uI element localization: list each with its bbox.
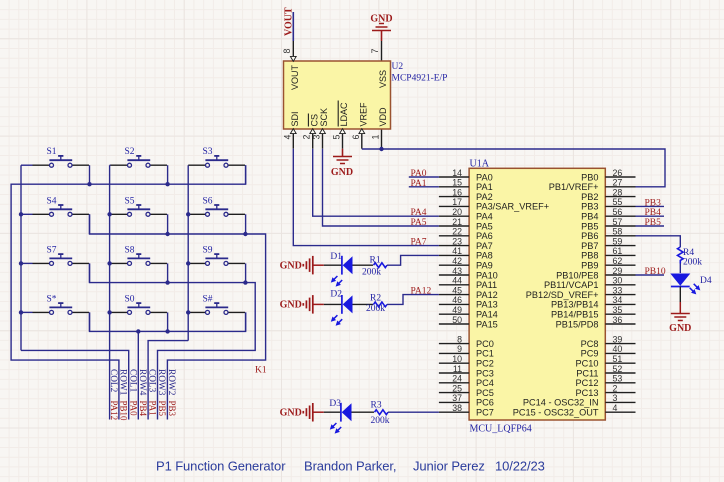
svg-text:8: 8	[457, 334, 462, 344]
svg-text:ROW1: ROW1	[118, 369, 128, 396]
svg-text:SCK: SCK	[319, 108, 329, 127]
svg-text:200k: 200k	[362, 268, 381, 278]
svg-text:52: 52	[613, 364, 623, 374]
svg-text:R4: R4	[683, 248, 694, 258]
svg-text:ROW4: ROW4	[137, 369, 147, 396]
svg-text:PA0: PA0	[476, 172, 493, 182]
svg-text:40: 40	[613, 344, 623, 354]
svg-text:15: 15	[452, 178, 462, 188]
svg-text:14: 14	[452, 168, 462, 178]
svg-text:PB15/PD8: PB15/PD8	[556, 319, 599, 329]
svg-text:61: 61	[613, 246, 623, 256]
svg-text:PB0: PB0	[581, 172, 598, 182]
svg-text:PA11: PA11	[476, 280, 497, 290]
svg-text:GND: GND	[331, 167, 353, 178]
svg-text:S5: S5	[125, 196, 135, 206]
svg-text:53: 53	[613, 374, 623, 384]
svg-text:VREF: VREF	[359, 102, 369, 127]
svg-text:38: 38	[452, 403, 462, 413]
svg-text:43: 43	[452, 266, 462, 276]
svg-text:4: 4	[282, 134, 292, 139]
svg-text:PB5: PB5	[645, 218, 662, 228]
svg-text:PC7: PC7	[476, 408, 494, 418]
svg-text:PC11: PC11	[576, 368, 598, 378]
svg-text:9: 9	[457, 344, 462, 354]
svg-text:PC12: PC12	[576, 378, 599, 388]
svg-text:PB2: PB2	[581, 192, 598, 202]
svg-text:21: 21	[452, 217, 462, 227]
svg-text:PB4: PB4	[581, 212, 598, 222]
svg-text:S6: S6	[203, 196, 213, 206]
svg-text:62: 62	[613, 256, 623, 266]
svg-text:VDD: VDD	[378, 107, 388, 127]
svg-text:R2: R2	[370, 293, 381, 303]
svg-text:Brandon Parker,: Brandon Parker,	[304, 458, 396, 473]
svg-text:PB8: PB8	[581, 251, 598, 261]
svg-text:PA3/SAR_VREF+: PA3/SAR_VREF+	[476, 202, 549, 212]
svg-text:S2: S2	[125, 147, 135, 157]
svg-text:S9: S9	[203, 245, 213, 255]
svg-text:3: 3	[312, 134, 322, 139]
svg-text:PA5: PA5	[411, 218, 427, 228]
svg-text:39: 39	[613, 334, 623, 344]
svg-text:D1: D1	[330, 252, 342, 262]
svg-text:COL3: COL3	[147, 369, 157, 393]
svg-text:PB4: PB4	[138, 401, 148, 417]
svg-text:PC10: PC10	[576, 359, 599, 369]
svg-text:PA2: PA2	[476, 192, 493, 202]
svg-text:3: 3	[613, 393, 618, 403]
svg-text:29: 29	[613, 266, 623, 276]
svg-text:55: 55	[613, 197, 623, 207]
svg-text:K1: K1	[255, 366, 267, 376]
svg-text:PA1: PA1	[148, 401, 158, 416]
svg-text:PB11/VCAP1: PB11/VCAP1	[544, 280, 598, 290]
svg-text:5: 5	[332, 134, 342, 139]
svg-text:45: 45	[452, 285, 462, 295]
svg-text:8: 8	[282, 48, 292, 53]
svg-text:23: 23	[452, 236, 462, 246]
svg-text:PA14: PA14	[476, 310, 498, 320]
svg-text:PB5: PB5	[581, 221, 598, 231]
svg-text:S*: S*	[47, 294, 57, 304]
svg-text:PA4: PA4	[476, 212, 493, 222]
svg-text:PB1/VREF+: PB1/VREF+	[549, 182, 599, 192]
svg-text:PC14 - OSC32_IN: PC14 - OSC32_IN	[523, 398, 599, 408]
svg-text:COL2: COL2	[108, 369, 118, 393]
svg-text:GND: GND	[370, 14, 392, 25]
svg-text:Junior Perez: Junior Perez	[413, 458, 485, 473]
svg-text:PB10: PB10	[119, 401, 129, 422]
svg-text:PA12: PA12	[109, 401, 119, 421]
svg-text:PB3: PB3	[645, 198, 662, 208]
svg-text:PA5: PA5	[476, 221, 493, 231]
svg-text:PB3: PB3	[581, 202, 598, 212]
svg-text:PB3: PB3	[167, 401, 177, 417]
svg-text:PB14/PB15: PB14/PB15	[551, 310, 599, 320]
svg-text:VOUT: VOUT	[284, 7, 295, 36]
svg-text:PC4: PC4	[476, 378, 494, 388]
svg-text:VSS: VSS	[378, 70, 388, 88]
svg-text:37: 37	[452, 393, 462, 403]
svg-text:PA12: PA12	[476, 290, 498, 300]
svg-text:PB4: PB4	[645, 208, 662, 218]
svg-text:R3: R3	[371, 401, 382, 411]
svg-text:1: 1	[371, 134, 381, 139]
svg-text:PC6: PC6	[476, 398, 494, 408]
svg-text:PA8: PA8	[476, 251, 493, 261]
svg-text:PC15 - OSC32_OUT: PC15 - OSC32_OUT	[513, 408, 599, 418]
svg-text:26: 26	[613, 168, 623, 178]
svg-text:36: 36	[613, 315, 623, 325]
svg-text:D2: D2	[330, 290, 342, 300]
svg-text:SDI: SDI	[290, 111, 300, 126]
svg-text:PC2: PC2	[476, 359, 494, 369]
svg-text:PC5: PC5	[476, 388, 494, 398]
svg-text:4: 4	[613, 403, 618, 413]
svg-text:S7: S7	[47, 245, 57, 255]
svg-text:PA4: PA4	[411, 208, 427, 218]
svg-text:22: 22	[452, 227, 462, 237]
svg-text:PC8: PC8	[581, 339, 599, 349]
svg-text:S8: S8	[125, 245, 135, 255]
svg-text:51: 51	[613, 354, 623, 364]
svg-text:MCP4921-E/P: MCP4921-E/P	[392, 74, 448, 84]
svg-text:PA7: PA7	[411, 238, 427, 248]
svg-text:33: 33	[613, 285, 623, 295]
svg-text:41: 41	[452, 246, 462, 256]
svg-text:PB10/PE8: PB10/PE8	[556, 270, 598, 280]
svg-text:PB9: PB9	[581, 261, 598, 271]
svg-text:PC1: PC1	[476, 349, 494, 359]
svg-text:PC0: PC0	[476, 339, 494, 349]
svg-text:MCU_LQFP64: MCU_LQFP64	[470, 424, 532, 435]
svg-text:49: 49	[452, 305, 462, 315]
svg-text:200k: 200k	[683, 258, 702, 268]
svg-text:50: 50	[452, 315, 462, 325]
svg-text:34: 34	[613, 295, 623, 305]
svg-text:6: 6	[351, 134, 361, 139]
svg-text:PB12/SD_VREF+: PB12/SD_VREF+	[526, 290, 599, 300]
svg-text:42: 42	[452, 256, 462, 266]
svg-text:16: 16	[452, 187, 462, 197]
svg-text:PA7: PA7	[476, 241, 493, 251]
svg-text:24: 24	[452, 374, 462, 384]
svg-text:GND: GND	[669, 323, 691, 334]
svg-text:GND: GND	[280, 408, 302, 419]
svg-text:200k: 200k	[371, 416, 390, 426]
svg-text:S1: S1	[47, 147, 57, 157]
svg-text:S0: S0	[125, 294, 135, 304]
svg-text:R1: R1	[370, 256, 381, 266]
svg-text:PC3: PC3	[476, 368, 494, 378]
svg-text:P1 Function Generator: P1 Function Generator	[156, 458, 286, 473]
svg-text:PA1: PA1	[476, 182, 493, 192]
svg-text:58: 58	[613, 227, 623, 237]
svg-text:28: 28	[613, 187, 623, 197]
svg-text:PA15: PA15	[476, 319, 498, 329]
svg-text:11: 11	[453, 364, 462, 374]
svg-text:D3: D3	[329, 399, 341, 409]
svg-text:30: 30	[613, 276, 623, 286]
svg-text:ROW3: ROW3	[156, 369, 166, 396]
svg-text:S#: S#	[203, 294, 213, 304]
svg-text:35: 35	[613, 305, 623, 315]
svg-text:PB5: PB5	[157, 401, 167, 417]
svg-text:25: 25	[452, 383, 462, 393]
svg-text:PA0: PA0	[411, 169, 427, 179]
svg-text:U2: U2	[392, 62, 404, 72]
svg-text:D4: D4	[700, 276, 712, 286]
svg-text:2: 2	[613, 383, 618, 393]
svg-text:PA1: PA1	[411, 179, 427, 189]
svg-text:ROW2: ROW2	[166, 369, 176, 396]
svg-text:PB6: PB6	[581, 231, 598, 241]
svg-text:PC13: PC13	[576, 388, 599, 398]
svg-text:20: 20	[452, 207, 462, 217]
svg-text:10/22/23: 10/22/23	[495, 458, 545, 473]
svg-text:U1A: U1A	[470, 158, 490, 169]
svg-text:PA0: PA0	[128, 401, 138, 417]
svg-text:PA10: PA10	[476, 270, 498, 280]
svg-text:PB13/PB14: PB13/PB14	[551, 300, 599, 310]
svg-text:7: 7	[370, 48, 380, 53]
svg-text:PB10: PB10	[645, 267, 666, 277]
svg-text:PA13: PA13	[476, 300, 498, 310]
svg-text:GND: GND	[280, 300, 302, 311]
svg-text:200k: 200k	[366, 304, 385, 314]
svg-text:GND: GND	[280, 261, 302, 272]
svg-text:PC9: PC9	[581, 349, 599, 359]
svg-text:44: 44	[452, 276, 462, 286]
svg-text:COL1: COL1	[127, 369, 137, 393]
svg-text:10: 10	[452, 354, 462, 364]
svg-text:PB7: PB7	[581, 241, 598, 251]
svg-text:CS: CS	[309, 114, 319, 127]
svg-text:S3: S3	[203, 147, 213, 157]
svg-text:PA6: PA6	[476, 231, 493, 241]
svg-text:PA9: PA9	[476, 261, 493, 271]
svg-text:S4: S4	[47, 196, 57, 206]
svg-text:46: 46	[452, 295, 462, 305]
svg-text:VOUT: VOUT	[290, 64, 300, 90]
svg-text:56: 56	[613, 207, 623, 217]
svg-text:59: 59	[613, 236, 623, 246]
svg-text:27: 27	[613, 178, 623, 188]
svg-text:57: 57	[613, 217, 623, 227]
svg-text:2: 2	[302, 134, 312, 139]
svg-text:17: 17	[452, 197, 462, 207]
svg-text:LDAC: LDAC	[339, 102, 349, 127]
